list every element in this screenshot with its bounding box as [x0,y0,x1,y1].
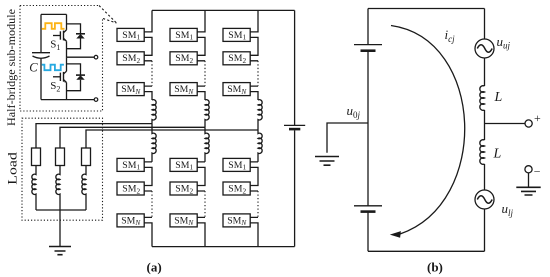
svg-text:S2: S2 [50,80,60,93]
leg3 lower arm inductor [258,130,262,162]
svg-text:C: C [29,61,38,75]
SM box L3-N [223,214,250,227]
b top wire [368,8,485,10]
svg-text:SM2: SM2 [122,53,140,65]
svg-text:ulj: ulj [502,201,514,218]
leg3 upper dotted continuation [257,61,259,86]
SM box L1-2 [117,182,144,195]
leg1 upper arm inductor [152,100,156,124]
diode D2 branch [67,64,81,91]
svg-text:(a): (a) [147,260,162,275]
svg-text:SM1: SM1 [175,160,193,172]
half-bridge sub-module dashed box [20,6,103,112]
leg1 lower dotted continuation [151,191,153,217]
submodule bottom wire [41,99,94,101]
svg-text:SM2: SM2 [122,183,140,195]
top bus wire [152,9,295,11]
svg-text:SM2: SM2 [175,53,193,65]
phase wire C [86,130,258,148]
SM box U2-1 [170,28,197,41]
resistor load 1 [32,148,41,166]
ac source u_lj [475,190,494,209]
load ground [49,247,71,255]
reference terminal wire [528,173,530,187]
leg1 lower arm inductor [152,124,156,162]
SM box L2-2 [170,182,197,195]
load common wire [36,209,86,211]
SM box L2-1 [170,158,197,171]
phase wire B [60,127,205,148]
svg-text:Half-bridge sub-module: Half-bridge sub-module [4,9,18,126]
diode D2 [76,75,85,80]
output terminal circle [525,120,532,127]
leg3 lower stubs and connector wires [250,162,258,247]
battery source lower [354,206,382,212]
svg-text:(b): (b) [427,260,443,275]
callout wedge to SM1 [99,6,117,24]
SM box U3-N [223,83,250,96]
gate waveform S1 (orange) [42,23,65,29]
SM box U3-2 [223,52,250,65]
SM box U1-N [117,83,144,96]
inductor L upper [480,86,485,111]
battery source upper [354,45,382,51]
S2 collector/emitter vertical [66,57,68,99]
resistor load 3 [82,148,91,166]
svg-text:SMN: SMN [174,215,194,227]
dc link wire upper [294,10,296,125]
circulating current arc [391,26,465,235]
leg2 lower stubs and connector wires [197,162,205,247]
load ground wire [59,210,61,247]
load inductor 2 [56,166,60,211]
ground right of b [516,187,540,195]
submodule midpoint output wire [67,56,95,58]
svg-text:u0j: u0j [347,103,361,120]
b right wire segments [484,9,486,252]
svg-text:L: L [493,147,502,162]
svg-text:SMN: SMN [121,84,141,96]
leg2 upper arm inductor [205,100,209,128]
midpoint terminal circle [94,55,98,59]
svg-text:SM2: SM2 [228,53,246,65]
svg-text:uuj: uuj [497,34,511,51]
svg-text:L: L [494,90,503,105]
svg-text:SMN: SMN [174,84,194,96]
SM box U1-1 [117,28,144,41]
svg-text:SM1: SM1 [228,160,246,172]
svg-text:SM1: SM1 [122,30,140,42]
output node wire [485,123,526,125]
diode D1 [76,34,85,39]
bottom terminal circle [94,98,98,102]
capacitor C branch wire lower [40,59,42,100]
u0j tap wire [327,123,368,153]
load inductor 1 [32,166,36,211]
svg-text:SMN: SMN [121,215,141,227]
leg3 lower dotted continuation [257,191,259,217]
IGBT S2 [53,71,67,82]
leg1 upper dotted continuation [151,61,153,86]
load inductor 3 [82,166,86,211]
svg-text:SMN: SMN [227,84,247,96]
svg-text:SM2: SM2 [228,183,246,195]
svg-text:SM1: SM1 [228,30,246,42]
SM box L2-N [170,214,197,227]
svg-text:SMN: SMN [227,215,247,227]
submodule top wire [41,13,67,15]
leg1 upper stubs and connector wires [144,10,152,100]
phase wire A [36,124,152,148]
arc arrowhead [390,231,401,238]
diode D1 branch [67,24,81,49]
leg3 upper stubs and connector wires [250,10,258,100]
svg-text:Load: Load [5,152,20,185]
dc link capacitor [284,125,305,129]
leg2 lower arm inductor [205,127,209,162]
S1 collector/emitter vertical [66,14,68,57]
ground left of b [315,157,339,166]
dc link wire lower [294,130,296,246]
svg-text:−: − [534,165,541,179]
leg1 lower stubs and connector wires [144,162,152,247]
svg-text:icj: icj [445,27,456,44]
svg-text:SM1: SM1 [122,160,140,172]
svg-text:+: + [534,111,541,125]
ac source u_uj [475,39,494,58]
bottom bus wire [152,246,295,248]
svg-text:SM2: SM2 [175,183,193,195]
inductor L lower [480,140,485,165]
SM box U2-2 [170,52,197,65]
b bottom wire [368,250,485,252]
leg2 lower dotted continuation [204,191,206,217]
SM box U3-1 [223,28,250,41]
resistor load 2 [56,148,65,166]
capacitor C plates [32,52,50,54]
SM box L1-N [117,214,144,227]
b left wire segments [367,9,369,252]
IGBT S1 [53,30,67,41]
svg-text:S1: S1 [50,39,60,52]
capacitor C branch wire upper [40,14,42,52]
SM box U2-N [170,83,197,96]
SM box L1-1 [117,158,144,171]
leg2 upper stubs and connector wires [197,10,205,100]
svg-text:SM1: SM1 [175,30,193,42]
SM box U1-2 [117,52,144,65]
leg2 upper dotted continuation [204,61,206,86]
leg3 upper arm inductor [258,100,262,130]
load dashed box [22,118,103,220]
reference terminal circle [525,166,532,173]
gate waveform S2 (blue) [42,65,64,71]
SM box L3-2 [223,182,250,195]
SM box L3-1 [223,158,250,171]
